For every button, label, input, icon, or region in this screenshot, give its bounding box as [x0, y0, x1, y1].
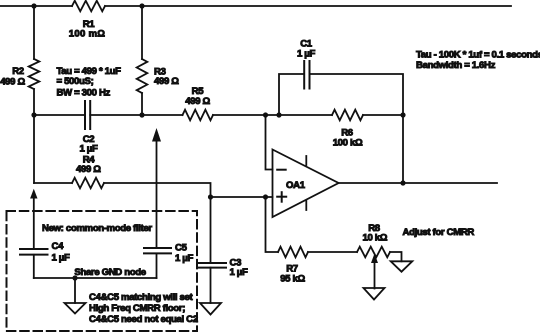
- node: inverting-branch junction: [263, 112, 268, 117]
- label R3: [154, 66, 166, 77]
- svg-text:1 µF: 1 µF: [80, 143, 98, 154]
- svg-text:C4: C4: [52, 241, 65, 252]
- op-amp OA1 body: [273, 150, 339, 218]
- label R7: [286, 263, 298, 274]
- wire: C3 top lead: [210, 197, 212, 263]
- capacitor C5: [144, 248, 171, 253]
- wire: op-amp output: [339, 182, 497, 184]
- label R7 value 95 k&#937;: [280, 273, 305, 284]
- node: C1-branch junction: [276, 112, 281, 117]
- capacitor C1: [304, 61, 309, 89]
- wire: top rail, R1 to right end: [105, 5, 511, 7]
- svg-text:Bandwidth = 1.6Hz: Bandwidth = 1.6Hz: [416, 60, 496, 71]
- svg-text:= 500uS;: = 500uS;: [57, 76, 94, 87]
- op-amp OA1 non-inverting input marker: [277, 192, 286, 202]
- svg-text:Tau - 100K * 1uf = 0.1 seconds: Tau - 100K * 1uf = 0.1 seconds: [416, 49, 540, 60]
- node: top rail / R3 junction: [139, 3, 144, 8]
- wire: feedback node down to output: [402, 115, 404, 183]
- label R2 value 499 &#937;: [0, 76, 25, 87]
- op-amp OA1 positive supply pin tick: [305, 156, 307, 165]
- wire: plus node down to R7: [266, 197, 279, 252]
- wire: shared node to ground: [74, 278, 76, 303]
- resistor R8 (potentiometer): [357, 247, 390, 258]
- wire: C4 top lead: [33, 199, 35, 250]
- op-amp OA1 negative supply pin tick: [305, 201, 307, 210]
- label R4 value 499 &#937;: [76, 164, 101, 175]
- label C1: [300, 39, 313, 50]
- label R5 value 499 &#937;: [185, 96, 210, 107]
- label: note Bandwidth = 1.6Hz: [416, 60, 496, 71]
- label R2: [12, 66, 24, 77]
- node: shared ground junction: [72, 275, 77, 280]
- svg-text:1 µF: 1 µF: [297, 48, 315, 59]
- annotation arrow at left node: [30, 189, 37, 199]
- label OA1: [286, 180, 306, 191]
- label R6: [341, 127, 353, 138]
- node: left node / C2 row junction: [31, 112, 36, 117]
- wire: R4 to non-inverting node: [104, 183, 211, 197]
- wire: C4 bottom lead: [33, 255, 35, 278]
- wire: shared ground node rail: [34, 277, 157, 279]
- node: feedback node: [400, 112, 405, 117]
- svg-text:1 µF: 1 µF: [175, 253, 193, 264]
- label C4 value 1 &#181;F: [52, 252, 70, 263]
- wire: R6 to feedback corner: [363, 114, 403, 116]
- resistor R6: [332, 110, 363, 121]
- svg-text:499 Ω: 499 Ω: [154, 76, 179, 87]
- wire: C2 left lead: [34, 114, 85, 116]
- svg-text:95 kΩ: 95 kΩ: [280, 273, 305, 284]
- label C5: [175, 242, 188, 253]
- label C3 value 1 &#181;F: [230, 267, 248, 278]
- label: note High Freq CMRR floor;: [89, 303, 185, 314]
- label: note C4&amp;C5 matching will set: [89, 292, 194, 303]
- svg-text:New: common-mode filter: New: common-mode filter: [42, 223, 152, 234]
- label: note C4&amp;C5 need not equal C2: [89, 314, 198, 325]
- wire: top input rail, left segment: [0, 5, 72, 7]
- wire: R3 top lead: [141, 6, 143, 59]
- wire: R3 bottom lead: [141, 93, 143, 115]
- ground: C3: [200, 303, 221, 315]
- label: Adjust for CMRR: [403, 227, 475, 238]
- svg-text:C4&C5 need not equal C2: C4&C5 need not equal C2: [89, 314, 198, 325]
- svg-text:10 kΩ: 10 kΩ: [362, 232, 387, 243]
- ground: R8 wiper: [364, 288, 385, 300]
- label R5: [192, 86, 205, 97]
- svg-text:100 mΩ: 100 mΩ: [69, 28, 105, 39]
- label: Share GND node: [74, 267, 145, 278]
- ground: R8 right terminal: [391, 261, 413, 271]
- svg-text:1 µF: 1 µF: [52, 252, 70, 263]
- wire: R7 to R8: [308, 251, 357, 253]
- op-amp OA1 inverting input marker: [277, 169, 286, 171]
- wire: R5 to R6: [213, 114, 332, 116]
- svg-text:499 Ω: 499 Ω: [0, 76, 25, 87]
- label R8: [368, 223, 381, 234]
- wire: left node to R4: [34, 182, 72, 184]
- svg-text:High Freq CMRR floor;: High Freq CMRR floor;: [89, 303, 185, 314]
- potentiometer R8 wiper arrow: [371, 254, 378, 289]
- wire: C1 right lead to feedback node: [310, 74, 404, 115]
- node: R3 bottom junction: [139, 112, 144, 117]
- svg-text:BW = 300 Hz: BW = 300 Hz: [57, 87, 111, 98]
- dashed box: new common-mode filter region: [7, 211, 198, 331]
- resistor R4: [72, 178, 104, 189]
- wire: C1 left lead: [279, 74, 304, 115]
- label: note Tau - 100K * 1uf = 0.1 seconds: [416, 49, 540, 60]
- wire: R2 top lead: [33, 6, 35, 59]
- label C5 value 1 &#181;F: [175, 253, 193, 264]
- svg-text:100 kΩ: 100 kΩ: [333, 137, 363, 148]
- label R4: [83, 154, 96, 165]
- resistor R1: [72, 1, 105, 12]
- node: output junction: [400, 180, 405, 185]
- wire: C5 top lead: [156, 141, 158, 248]
- svg-text:C5: C5: [175, 242, 188, 253]
- wire: non-inverting node to op-amp: [211, 196, 273, 198]
- capacitor C2: [85, 101, 90, 129]
- label C2 value 1 &#181;F: [80, 143, 98, 154]
- node: top rail / R2 junction: [31, 3, 36, 8]
- node: non-inverting node: [208, 194, 213, 199]
- svg-text:C4&C5 matching will set: C4&C5 matching will set: [89, 292, 194, 303]
- label R3 value 499 &#937;: [154, 76, 179, 87]
- label R1: [83, 19, 96, 30]
- svg-text:1 µF: 1 µF: [230, 267, 248, 278]
- svg-text:R2: R2: [12, 66, 24, 77]
- svg-text:OA1: OA1: [286, 180, 306, 191]
- capacitor C3: [198, 263, 227, 268]
- label C4: [52, 241, 65, 252]
- resistor R7: [278, 247, 308, 258]
- svg-text:Adjust for CMRR: Adjust for CMRR: [403, 227, 475, 238]
- label: note BW = 300 Hz: [57, 87, 111, 98]
- label: note = 500uS;: [57, 76, 94, 87]
- wire: R2 bottom to R4 corner: [33, 89, 35, 183]
- svg-text:499 Ω: 499 Ω: [185, 96, 210, 107]
- wire: R8 right lead to ground: [390, 252, 402, 261]
- capacitor C4: [20, 249, 48, 255]
- node: R7-branch junction: [263, 194, 268, 199]
- annotation arrow at C2/R5 wire: [152, 128, 161, 142]
- label R6 value 100 k&#937;: [333, 137, 363, 148]
- wire: C5 bottom lead: [156, 254, 158, 279]
- label C1 value 1 &#181;F: [297, 48, 315, 59]
- resistor R3: [137, 59, 148, 93]
- svg-text:Share GND node: Share GND node: [74, 267, 145, 278]
- wire: C2 to R5: [90, 114, 182, 116]
- resistor R5: [183, 110, 214, 121]
- wire: inverting input: [266, 115, 273, 170]
- label: note Tau = 499 * 1uF: [57, 66, 122, 77]
- label R8 value 10 k&#937;: [362, 232, 387, 243]
- label: New: common-mode filter: [42, 223, 152, 234]
- label C2: [83, 134, 95, 145]
- wire: C3 bottom lead: [210, 268, 212, 303]
- svg-text:499 Ω: 499 Ω: [76, 164, 101, 175]
- resistor R2: [29, 59, 40, 89]
- label C3: [230, 257, 242, 268]
- ground: shared GND: [65, 303, 86, 314]
- label R1 value 100 m&#937;: [69, 28, 105, 39]
